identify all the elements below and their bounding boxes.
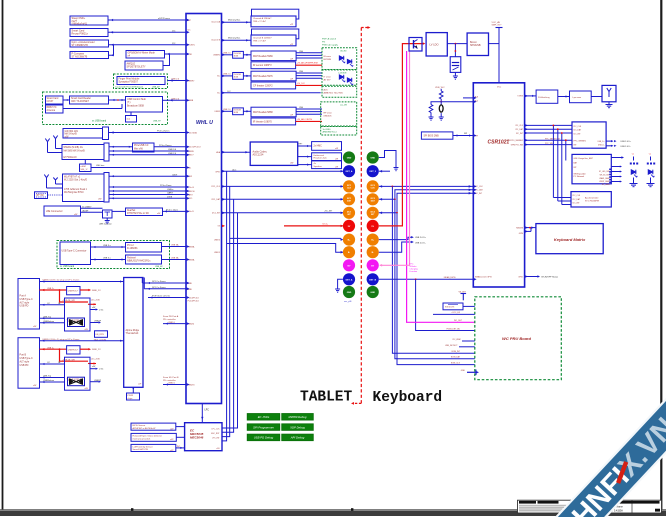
debug option box XDP Debug	[282, 424, 314, 431]
svg-text:x/W: x/W	[74, 214, 77, 216]
controller U12 EC MEC5035	[185, 423, 222, 451]
svg-text:+VCC_EX: +VCC_EX	[451, 312, 460, 314]
module U37 PC1.2 redriver	[126, 243, 162, 253]
wire hotword to EC	[176, 436, 184, 438]
module U41 DB RPS	[95, 331, 108, 338]
svg-text:x/W: x/W	[335, 166, 338, 168]
wire Port B PD USB2 to WHL	[163, 384, 186, 386]
module U28 Smart Card Reader	[70, 96, 109, 104]
svg-text:WT_SAW#: WT_SAW#	[602, 183, 610, 186]
svg-text:NB8USQ?VN4CSR1x: NB8USQ?VN4CSR1x	[127, 260, 151, 263]
wire Alpine PCIe to WHL	[148, 297, 186, 299]
svg-text:GND: GND	[347, 158, 352, 160]
svg-text:SP1/ETB?2/LETY: SP1/ETB?2/LETY	[127, 66, 147, 69]
vertical I2C bus drop 1	[552, 125, 554, 197]
svg-text:Lid/Proximity Sensor: Lid/Proximity Sensor	[133, 445, 153, 448]
wire keyboard GND pin to ground	[379, 151, 396, 168]
switch U40 TLALE mux	[65, 298, 91, 331]
module U29 NFC antenna	[46, 105, 64, 113]
svg-text:KVLW_EX: KVLW_EX	[445, 307, 455, 309]
resistor R2	[431, 102, 441, 105]
svg-text:xxx_2W: xxx_2W	[340, 104, 347, 106]
svg-text:M1P Realtek 5976: M1P Realtek 5976	[253, 75, 273, 78]
svg-text:LV LDO: LV LDO	[430, 43, 439, 47]
svg-text:USB 2.0: USB 2.0	[223, 52, 231, 54]
antenna ANT5 keyboard BT	[602, 85, 616, 101]
wire U25 joining U24 wire	[163, 54, 170, 66]
pin arrows at WHL right edge	[222, 21, 225, 24]
svg-text:I2C_KBM: I2C_KBM	[452, 339, 461, 341]
svg-text:5.4335A: 5.4335A	[614, 509, 623, 512]
svg-text:I2C: I2C	[172, 43, 176, 45]
svg-text:USB 2+: USB 2+	[47, 288, 55, 290]
wire CSR TX to Pi-Matching	[525, 95, 537, 97]
camera module M1P Realtek 5976	[251, 71, 296, 81]
wire CSR GPM to matrix	[525, 230, 531, 232]
wire Port B USB top	[40, 377, 65, 379]
svg-text:xtal: xtal	[127, 118, 131, 121]
svg-text:PCIe+2lanes: PCIe+2lanes	[157, 131, 170, 133]
svg-text:GPM: GPM	[519, 233, 524, 235]
svg-text:PCIe4/PCIe4: PCIe4/PCIe4	[188, 301, 199, 303]
svg-text:DP1.2 x 4lanes: DP1.2 x 4lanes	[152, 281, 166, 283]
wire codec to HMC	[298, 145, 312, 147]
svg-text:GPM PIO_SENSE1: GPM PIO_SENSE1	[506, 140, 523, 142]
page border left	[2, 0, 4, 510]
connector J2 x8E	[44, 206, 81, 216]
wire Port A USB2 red	[40, 289, 67, 291]
connector strip U35	[104, 173, 109, 203]
wire finger print to WHL USB	[168, 80, 187, 82]
separator bottom arrow	[354, 402, 362, 404]
svg-text:Broadcom 5658: Broadcom 5658	[127, 104, 145, 107]
wire touch USB D+ out	[606, 140, 611, 142]
svg-text:Channel B: Channel B	[211, 39, 221, 41]
charger controller U9	[572, 154, 611, 183]
svg-text:+2V_AVL [PXNPPLEXE: +2V_AVL [PXNPPLEXE	[297, 62, 319, 65]
transistor Q10 level shifter	[103, 210, 113, 218]
svg-text:x-B?: x-B?	[170, 439, 174, 441]
sensor box U14 hotword switch	[131, 433, 176, 441]
svg-text:Thunderbolt: Thunderbolt	[126, 332, 139, 335]
debug option box MIPI60 Debug	[282, 414, 314, 421]
wire U40 USB2 out	[90, 322, 99, 324]
wire keyboard I2C2_CLK to CSR	[379, 185, 474, 187]
svg-text:PPC_WN: PPC_WN	[545, 143, 553, 145]
svg-text:DB_RPS: DB_RPS	[96, 334, 105, 336]
svg-text:USB 3A: USB 3A	[171, 257, 179, 260]
svg-text:Mini x/W: Mini x/W	[134, 148, 144, 150]
pogo pin tablet I2C1 INT	[343, 207, 355, 219]
wire Alpine DP lane 2 to WHL	[146, 288, 187, 290]
svg-text:MIPI60 Debug: MIPI60 Debug	[289, 415, 307, 419]
svg-text:SW Expander: SW Expander	[574, 174, 587, 176]
antenna ANT3	[46, 178, 48, 183]
wire codec to headset	[298, 156, 312, 158]
svg-text:LPC_CLK: LPC_CLK	[212, 429, 221, 431]
svg-text:IT xmxr: IT xmxr	[324, 76, 332, 79]
svg-text:301B: 301B	[234, 112, 239, 114]
svg-text:USBPD/C?: USBPD/C?	[68, 350, 79, 352]
svg-text:x5C_2LW: x5C_2LW	[91, 300, 100, 302]
svg-text:CRF TS-483/SET: CRF TS-483/SET	[71, 101, 90, 103]
wire lid sensor to EC	[176, 447, 185, 449]
svg-text:eSIM: eSIM	[81, 166, 86, 168]
svg-text:Channel A: Channel A	[211, 20, 220, 23]
svg-text:USB2/P: USB2/P	[94, 321, 102, 323]
wire WHL HDA to codec	[222, 151, 251, 153]
pogo pin keyboard I2C2 INT	[367, 207, 379, 219]
svg-text:PCIe x 1lane: PCIe x 1lane	[166, 210, 179, 212]
wire Port A CC	[40, 304, 65, 306]
vertical bus wire to EC 2	[222, 186, 230, 436]
svg-text:PCIe/USB 3.0: PCIe/USB 3.0	[134, 145, 149, 147]
wire eSIM to WHL LML bus	[91, 167, 186, 169]
connector J5 Port B USB Type-C	[18, 338, 40, 389]
svg-text:I2C_INT: I2C_INT	[516, 133, 524, 135]
pin arrows at WHL left edge	[187, 19, 190, 22]
svg-text:xxx_p/B: xxx_p/B	[344, 301, 352, 303]
svg-text:WWAN (M.2/B) 4G: WWAN (M.2/B) 4G	[64, 146, 84, 149]
antenna ANT1	[47, 142, 49, 147]
regulator U3 Boost	[467, 33, 488, 56]
svg-text:PGP+B switch: PGP+B switch	[322, 38, 337, 41]
wire CSR I2C_INT bus	[525, 132, 572, 134]
wire bundle camera M1P Realtek 5969 to indicator	[296, 52, 322, 54]
svg-text:GND: GND	[461, 370, 466, 372]
svg-text:HP?: HP?	[299, 144, 303, 146]
svg-text:I2C1+: I2C1+	[323, 224, 329, 226]
vertical wire BOM_CLK	[397, 213, 475, 365]
svg-text:+3V_AVL 2.8XXV: +3V_AVL 2.8XXV	[297, 118, 313, 121]
vertical wires WHL to Alpine top	[141, 278, 143, 284]
wire branch to B+ pin	[230, 237, 341, 239]
svg-text:301B: 301B	[234, 55, 239, 57]
wire WLAN CNVI to WHL	[109, 175, 186, 177]
svg-text:CLK: CLK	[371, 188, 376, 190]
pogo pin tablet DET_A	[343, 273, 355, 285]
pogo pin tablet B+	[343, 234, 355, 246]
wire U23 joining U22 wire	[109, 45, 114, 55]
svg-text:OLLED: OLLED	[340, 50, 347, 52]
svg-text:DP1.2 x 4lanes: DP1.2 x 4lanes	[152, 287, 166, 289]
svg-text:USB/H1: USB/H1	[213, 54, 220, 56]
svg-text:USB 3.x: USB 3.x	[103, 245, 112, 247]
svg-text:PCIe+2lanes: PCIe+2lanes	[159, 145, 172, 147]
svg-text:2x HMC: 2x HMC	[314, 146, 323, 148]
wire Port B USB bottom	[40, 381, 65, 383]
svg-text:GND: GND	[370, 292, 375, 294]
svg-text:x/W: x/W	[85, 388, 88, 390]
svg-text:Lpx-xxxx: Lpx-xxxx	[573, 97, 583, 99]
group WC PRU Board	[475, 297, 562, 380]
svg-text:WC PRU Board: WC PRU Board	[502, 336, 531, 341]
pogo pin keyboard DET_B	[367, 273, 379, 285]
svg-text:eDP/2 lanes: eDP/2 lanes	[158, 18, 171, 20]
pogo pin tablet 5V	[343, 220, 355, 232]
svg-text:From PB Port A: From PB Port A	[163, 315, 179, 318]
svg-text:CC: CC	[47, 362, 51, 364]
svg-text:Smart Card: Smart Card	[47, 97, 59, 100]
svg-text:CNVI: CNVI	[172, 174, 178, 176]
wire smart card to reader	[63, 99, 70, 101]
group smart card USB board	[43, 92, 168, 125]
svg-text:Headset Jack: Headset Jack	[314, 157, 328, 160]
wire keyboard I2C2_DAT to CSR	[379, 190, 474, 200]
wire Port B PD out red	[80, 348, 89, 350]
wire U22 to WHL	[109, 44, 187, 46]
title block table	[518, 500, 662, 513]
wire keyboard DET_2 pin stub	[379, 170, 390, 172]
svg-text:x/W: x/W	[92, 366, 95, 368]
svg-text:BM87x?C: BM87x?C	[47, 107, 57, 109]
wire bead to camera M1P Realtek 5969	[243, 54, 251, 56]
pogo pin tablet GND	[343, 151, 355, 163]
svg-text:xx USB board: xx USB board	[60, 265, 75, 268]
svg-text:EC JTAG: EC JTAG	[258, 415, 270, 419]
svg-text:SmartX APS7W: SmartX APS7W	[133, 448, 149, 451]
wire SPI to CSR	[453, 135, 473, 137]
svg-text:M1P Realtek 5969: M1P Realtek 5969	[253, 55, 273, 58]
svg-text:PD/W: PD/W	[128, 395, 133, 397]
svg-text:B-: B-	[348, 252, 351, 254]
ground below R2	[429, 116, 434, 118]
group USB type-C board	[57, 241, 170, 269]
svg-text:XDP Debug: XDP Debug	[289, 425, 305, 429]
svg-text:5in wSM6?: 5in wSM6?	[82, 207, 91, 209]
svg-text:GND: GND	[347, 292, 352, 294]
wire red 5V keyboard to LDO rail	[379, 44, 424, 226]
capacitor C1	[454, 44, 456, 57]
wire mini card to WHL PCIe	[154, 146, 186, 148]
svg-text:IR xmxr: IR xmxr	[324, 55, 332, 58]
wire tablet DET_B to ground	[338, 279, 343, 289]
svg-text:APS8?A7 or A5760b-W: APS8?A7 or A5760b-W	[133, 427, 157, 430]
svg-text:USB 2.0: USB 2.0	[171, 79, 180, 81]
svg-text:0930US: 0930US	[324, 115, 332, 117]
svg-text:USB2.0: USB2.0	[168, 383, 176, 385]
wire CSR PIO_WN	[525, 144, 572, 146]
svg-text:I2C: I2C	[172, 31, 176, 33]
battery BTY3 box	[35, 192, 48, 199]
svg-text:Memory Bus: Memory Bus	[228, 19, 241, 22]
accelerometer U10 ST	[571, 192, 611, 207]
svg-text:3c-2080: 3c-2080	[323, 129, 332, 131]
camera sensor IR sensor 1080*V	[251, 62, 296, 69]
wire Port B 5V red vertical	[60, 349, 89, 361]
sensor box U22 Gyro Accelerometer	[70, 40, 109, 47]
svg-text:USB_D+: USB_D+	[597, 141, 604, 143]
svg-text:5F6_1/: 5F6_1/	[81, 169, 88, 171]
zone tick marks	[131, 508, 133, 511]
svg-text:x/W: x/W	[98, 199, 102, 201]
pogo pin keyboard GND	[367, 151, 379, 163]
bottom zone strip	[0, 511, 666, 516]
svg-text:x/W: x/W	[290, 163, 293, 165]
wire Port A PD out red	[80, 289, 89, 291]
wire WHL I2C1_INT to pin	[222, 212, 343, 214]
pogo pin tablet DET_A	[343, 165, 355, 177]
watermark HNFIX.VN band	[535, 382, 666, 517]
svg-text:1765 Jefferson Peak 1: 1765 Jefferson Peak 1	[64, 188, 88, 191]
headset jack box	[312, 153, 342, 161]
svg-text:Recep P9821x: Recep P9821x	[72, 33, 89, 36]
svg-text:x/W: x/W	[33, 326, 36, 328]
svg-text:x/W: x/W	[33, 385, 36, 387]
vertical bus wire to EC 4	[222, 213, 238, 428]
svg-text:SMP_5V?: SMP_5V?	[492, 25, 503, 27]
svg-text:GPS/BOM A/ Meter Mode: GPS/BOM A/ Meter Mode	[128, 52, 156, 55]
svg-text:301B: 301B	[234, 77, 239, 79]
wire WHL to bead M1P Realtek 5868	[222, 110, 233, 112]
svg-text:DET_B: DET_B	[369, 279, 376, 281]
wire pink BV to keyboard pin	[380, 51, 410, 265]
camera module M1P Realtek 5969	[251, 51, 296, 61]
pogo pin tablet B-	[343, 246, 355, 258]
svg-text:CLK: CLK	[347, 188, 352, 190]
svg-text:USB-Top: USB-Top	[43, 317, 52, 319]
vertical I2C bus drop 2	[557, 129, 559, 201]
wire bead to camera M1P Realtek 5868	[243, 110, 251, 112]
svg-text:x/W: x/W	[157, 213, 160, 215]
svg-text:PCIe#3/2A: PCIe#3/2A	[188, 131, 198, 134]
svg-text:WAML_SAW#: WAML_SAW#	[599, 177, 610, 180]
svg-text:BOM_DAT: BOM_DAT	[451, 356, 461, 359]
wire Port A USB top	[40, 317, 65, 319]
svg-text:BX33/B: BX33/B	[324, 59, 332, 61]
wire Port B USB3 DP bus to Alpine Ridge	[40, 340, 124, 342]
module U11 KVLW	[443, 303, 463, 310]
camera sensor IR theater 1080*5	[251, 118, 296, 125]
svg-text:Channel B 128Gb?: Channel B 128Gb?	[253, 37, 272, 39]
svg-text:PCIE 4lane x4/x4 2x: PCIE 4lane x4/x4 2x	[152, 296, 170, 298]
wire bead to camera M1P Realtek 5976	[243, 75, 251, 77]
svg-text:USB3.0 (10G x 2) setup or DP x: USB3.0 (10G x 2) setup or DP x 4 lanes	[43, 338, 80, 341]
svg-text:USB Type-C Connector: USB Type-C Connector	[62, 250, 87, 253]
wire U24 to WHL	[165, 53, 187, 55]
wire USB stub to WHL	[168, 99, 187, 101]
speaker amp box 2x HMC	[312, 142, 342, 151]
svg-text:ST C6M8DS7B: ST C6M8DS7B	[72, 44, 89, 47]
svg-text:CF theater 1280*2: CF theater 1280*2	[253, 84, 273, 87]
wire x8E to level shifter upper	[81, 207, 103, 209]
svg-text:USB#5: USB#5	[214, 239, 220, 241]
wires I2C bus into accelerometer	[553, 197, 571, 199]
ferrite bead 5V BOM for M1P Realtek 5976	[233, 73, 244, 80]
svg-text:x-B?: x-B?	[170, 429, 174, 431]
ground below C1	[454, 72, 456, 76]
wire Port A USB3 DP bus to Alpine Ridge	[40, 281, 124, 283]
svg-text:CM4: CM4	[299, 71, 303, 73]
svg-text:C1537: C1537	[47, 101, 54, 103]
svg-text:SPI BIOS 2MB: SPI BIOS 2MB	[424, 136, 440, 138]
wire Q10 to card reader	[112, 210, 126, 212]
svg-text:+5V_5#2: +5V_5#2	[297, 83, 306, 85]
debug option box SPI Programmer	[247, 424, 280, 431]
svg-text:VCC_AV: VCC_AV	[492, 21, 501, 24]
sensor box U13 BIOS sensor	[131, 423, 176, 430]
wire WHL to bead M1P Realtek 5969	[222, 54, 233, 56]
svg-text:I2C_INT: I2C_INT	[573, 203, 581, 205]
wire keyboard B+ to USB D+	[379, 237, 412, 239]
pogo pin tablet BV	[343, 259, 355, 271]
memory module Channel B stack	[252, 29, 299, 39]
svg-text:C-DIODE: C-DIODE	[338, 72, 347, 74]
wire branch to B- pin	[227, 244, 343, 253]
svg-text:LPC: LPC	[205, 410, 210, 412]
wire WHL bottom LPC to EC	[201, 404, 203, 423]
vertical I2C bus drop 3	[561, 133, 563, 205]
svg-text:xx USB board: xx USB board	[92, 120, 107, 123]
connector strip U31	[103, 127, 109, 140]
svg-text:USB2.0: USB2.0	[168, 322, 176, 324]
svg-text:MA 5M3 MA 5-Key/B: MA 5M3 MA 5-Key/B	[64, 149, 86, 152]
svg-text:Synaptics FS6507: Synaptics FS6507	[119, 81, 139, 84]
svg-text:ST A5C988/7B: ST A5C988/7B	[72, 55, 88, 58]
vertical bus wire to EC 3	[222, 199, 234, 432]
svg-text:x/W: x/W	[335, 148, 338, 150]
capacitor C30 stub	[126, 116, 137, 123]
LED D3	[339, 75, 343, 79]
wire bundle camera M1P Realtek 5976 to indicator	[296, 72, 322, 74]
sensor box U15 lid proximity	[131, 444, 176, 451]
svg-text:USB_R?: USB_R?	[153, 121, 162, 123]
svg-text:Smart Card Reader: Smart Card Reader	[71, 97, 91, 100]
svg-text:USB_A?: USB_A?	[155, 265, 164, 268]
wire WLAN UART to WHL	[109, 194, 186, 196]
svg-text:PCIe#2/PCIe#2: PCIe#2/PCIe#2	[188, 147, 201, 149]
module U31 WLAN GID	[63, 129, 103, 139]
connector strip U32	[104, 143, 109, 161]
wire CSR I2C_CLK bus	[525, 124, 572, 126]
wire U40 5V out	[90, 309, 96, 311]
svg-text:I2C1_INT: I2C1_INT	[212, 213, 221, 215]
svg-text:USB PD: USB PD	[20, 305, 29, 308]
svg-text:RTS5?82 PCIe to SD: RTS5?82 PCIe to SD	[127, 212, 149, 215]
svg-text:USB/Bottom: USB/Bottom	[43, 379, 54, 382]
svg-text:TX/RX: TX/RX	[517, 96, 523, 98]
svg-text:30BK_2V: 30BK_2V	[92, 349, 101, 351]
module U25 AWQLE	[125, 61, 163, 70]
module U26 Finger Print Module	[117, 77, 165, 85]
svg-text:I2C_DAT: I2C_DAT	[574, 129, 582, 132]
wire WHL GPIO to DET_A pin	[222, 170, 343, 172]
svg-text:PGB sub supply: PGB sub supply	[322, 44, 339, 46]
svg-text:From SD Port B: From SD Port B	[163, 376, 179, 379]
wire WWAN USB3 to WHL	[109, 150, 186, 152]
keyboard matrix block	[536, 224, 603, 254]
ground below D6	[650, 178, 652, 184]
svg-text:BTY3#: BTY3#	[37, 195, 45, 197]
controller U_Port B USBPD CC	[67, 346, 80, 354]
module U30 USB control stub	[126, 97, 163, 113]
wire codec to speaker	[298, 164, 312, 166]
svg-text:issued with Front BTN board: issued with Front BTN board	[115, 86, 144, 89]
svg-text:RealTek: RealTek	[127, 210, 136, 212]
inductor L1	[440, 102, 442, 105]
wire U42 USB2 out	[90, 381, 99, 383]
junction dots I2C bus	[392, 186, 394, 188]
svg-text:x-B?: x-B?	[170, 450, 174, 452]
svg-text:I2S/8: I2S/8	[167, 197, 173, 199]
group ALS sensor	[322, 86, 357, 97]
svg-text:Pi-Matching: Pi-Matching	[538, 96, 550, 99]
svg-text:AV 56?: AV 56?	[324, 78, 332, 81]
svg-text:Hotword/Open /Close detector: Hotword/Open /Close detector	[133, 434, 163, 437]
svg-text:WK_BC_MV#: WK_BC_MV#	[600, 175, 610, 177]
svg-text:LML bus: LML bus	[96, 165, 105, 167]
svg-text:USB 2.0: USB 2.0	[168, 153, 177, 155]
